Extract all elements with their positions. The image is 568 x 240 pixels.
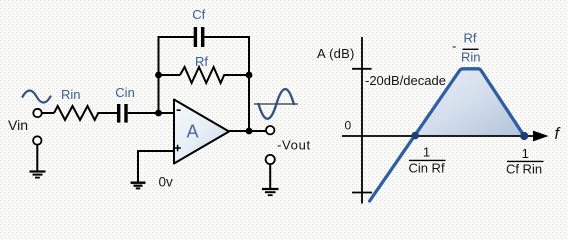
wire Vin ground [36,145,38,172]
wire top loop right [204,36,250,38]
svg-text:A (dB): A (dB) [317,46,355,61]
svg-text:0v: 0v [159,174,174,189]
svg-text:Rf: Rf [464,31,477,46]
ground output [262,188,279,190]
output sine symbol [259,89,294,119]
svg-text:1: 1 [423,144,430,159]
node junction input/feedback [155,110,162,117]
ground 0v [131,181,146,183]
svg-text:A: A [186,122,198,142]
svg-text:Cf Rin: Cf Rin [506,162,542,177]
frequency response curve [370,69,525,201]
terminal output bottom [266,155,275,164]
y-axis tick bottom [352,192,372,194]
svg-text:Cin: Cin [115,85,135,100]
svg-text:0: 0 [345,119,352,133]
wire non-inverting input [138,151,174,182]
svg-text:-: - [452,39,456,54]
wire op-amp output [229,130,266,132]
node junction Rf right [246,72,253,79]
wire right feedback rail [248,36,250,131]
wire left feedback rail [158,37,160,113]
wire Rin to Cin [101,112,117,114]
x-axis f [342,135,538,137]
svg-text:Vin: Vin [8,117,28,133]
node junction Rf left [155,72,162,79]
input sine symbol [23,90,51,102]
ground input [30,170,46,172]
svg-text:f: f [555,125,562,143]
op-amp plus sign [174,147,181,149]
output sine axis line [254,103,298,105]
op-amp minus sign [177,109,181,111]
wire top loop left [158,36,195,38]
node junction output [246,128,253,135]
op-amp U1 [174,100,229,164]
fraction bar 1/CinRf [409,159,446,161]
fraction bar 1/CfRin [507,160,544,162]
svg-text:Cf: Cf [192,7,205,22]
wire Vin to Rin [42,112,54,114]
svg-text:-20dB/decade: -20dB/decade [365,73,446,88]
node dot at 1/CinRf [411,132,419,140]
svg-text:1: 1 [522,146,529,161]
frequency response filled region [415,68,524,135]
terminal output top [266,126,274,134]
wire Rf left [159,74,181,76]
resistor Rf [180,67,227,83]
svg-text:Rf: Rf [195,54,208,69]
y-axis A (dB) [361,37,363,204]
y-axis tick gain level [352,68,372,70]
svg-text:Rin: Rin [61,87,81,102]
node dot at 1/CfRin [520,132,528,140]
terminal Vin top [33,109,41,117]
fraction bar Rf/Rin [463,48,479,50]
terminal Vin bottom [33,136,41,144]
x-axis arrowhead [533,131,549,142]
capacitor Cin [117,104,120,123]
wire Cin to op-amp inverting input [128,112,174,114]
wire output ground [269,164,271,189]
svg-text:-Vout: -Vout [277,137,311,152]
svg-text:Rin: Rin [461,50,481,65]
wire Rf right [227,74,249,76]
capacitor Cf [194,27,197,47]
resistor Rin [54,106,101,120]
svg-text:Cin Rf: Cin Rf [408,161,445,176]
